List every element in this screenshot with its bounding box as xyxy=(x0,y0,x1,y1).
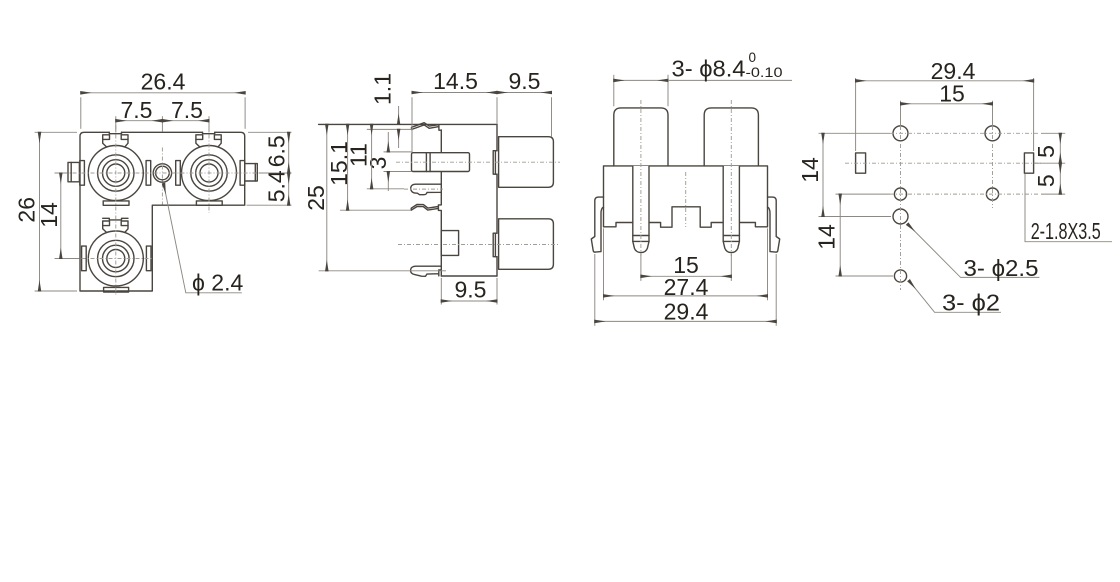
label 3-phi2 xyxy=(909,281,1001,316)
jack J2 right tab xyxy=(240,161,245,186)
svg-text:2-1.8X3.5: 2-1.8X3.5 xyxy=(1031,218,1101,244)
centerline lug 1 xyxy=(404,188,443,190)
jack J3 ring 3 xyxy=(103,245,130,272)
svg-text:7.5: 7.5 xyxy=(121,97,153,123)
spring tab 2 xyxy=(411,204,438,210)
label phi 2.4 leader xyxy=(164,184,244,296)
dimension 26 xyxy=(14,132,77,291)
dimension 14 upper xyxy=(797,133,891,216)
body outline (L-shape) xyxy=(80,132,245,291)
jack J3 right tab xyxy=(146,246,151,271)
jack J1 center hole xyxy=(107,164,125,182)
label 2-1.8X3.5 xyxy=(1025,174,1112,244)
svg-text:15.1: 15.1 xyxy=(326,141,352,186)
slot right 1.8x3.5 xyxy=(1024,153,1033,173)
centerline vertical small hole xyxy=(161,148,163,205)
svg-text:14.5: 14.5 xyxy=(433,68,478,94)
body top edge with extension line xyxy=(319,123,497,125)
jack J2 outer ring xyxy=(182,146,237,201)
svg-text:26.4: 26.4 xyxy=(141,69,186,95)
svg-text:9.5: 9.5 xyxy=(509,68,541,94)
dimension 15.1 xyxy=(326,124,411,210)
body right edge segments xyxy=(496,124,498,276)
body left edge with notch at spring tab xyxy=(438,130,441,276)
mounting ear left xyxy=(591,197,603,252)
svg-text:5: 5 xyxy=(1033,145,1059,158)
dimension 27.4 xyxy=(604,228,768,300)
svg-text:3- ϕ2: 3- ϕ2 xyxy=(942,290,1000,316)
svg-text:1.1: 1.1 xyxy=(370,73,396,105)
dimension 5.4 xyxy=(247,170,292,205)
svg-text:0: 0 xyxy=(749,50,757,65)
jack J1 left tab xyxy=(80,161,85,186)
centerline right column xyxy=(992,126,994,208)
right protruding lug xyxy=(245,164,258,181)
jack J2 bottom tab xyxy=(196,201,222,205)
svg-text:9.5: 9.5 xyxy=(455,277,487,303)
label 3-phi2.5 xyxy=(908,224,1040,281)
clip top barrel xyxy=(493,151,497,175)
terminal pin rectangle (3mm) xyxy=(412,153,470,172)
body outline with stepped bottom xyxy=(604,166,768,227)
centerline horizontal jack bottom xyxy=(55,258,153,260)
RCA barrel left (rear) xyxy=(614,108,668,166)
center small hole outer xyxy=(153,164,171,182)
jack J1 ring 3 xyxy=(103,160,130,187)
dimension 14.5 xyxy=(412,68,497,152)
dimension 5 lower xyxy=(1033,163,1065,194)
svg-text:5: 5 xyxy=(1033,174,1059,187)
dimension 6.5 xyxy=(248,132,292,173)
hole top-left phi2.5 xyxy=(893,126,908,141)
RCA barrel right (rear) xyxy=(704,108,758,166)
jack J1 right tab xyxy=(146,161,151,186)
svg-text:-0.10: -0.10 xyxy=(746,65,783,80)
dimension 15 (pins) xyxy=(641,252,731,281)
jack J3 center hole xyxy=(107,250,125,268)
square notch on left edge xyxy=(441,231,458,256)
centerline slot row xyxy=(845,162,1043,164)
dimension 5 upper xyxy=(1033,133,1065,163)
jack J1 outer ring xyxy=(88,146,143,201)
svg-text:25: 25 xyxy=(303,185,329,211)
jack J3 outer ring xyxy=(88,231,143,286)
dimension 11 xyxy=(346,124,404,188)
center small hole inner xyxy=(156,166,170,180)
hole bottom phi2 xyxy=(894,270,906,282)
RCA barrel top xyxy=(499,137,554,188)
hole third phi2.5 xyxy=(893,209,908,224)
jack J3 ring 2 xyxy=(98,240,134,276)
svg-text:3- ϕ8.4: 3- ϕ8.4 xyxy=(672,56,746,82)
dimension 3-phi8.4 xyxy=(614,50,792,106)
spring tab top (1.1 thickness) xyxy=(412,123,442,131)
solder lug 1 xyxy=(411,184,442,195)
dimension 29.4 xyxy=(856,58,1034,151)
svg-text:14: 14 xyxy=(797,157,823,183)
jack J3 castle xyxy=(103,218,128,232)
dimension 15 xyxy=(901,81,993,126)
centerline left barrel/pin xyxy=(640,100,642,256)
mounting ear right xyxy=(768,197,780,252)
jack J2 left tab xyxy=(176,161,181,186)
svg-text:5.4: 5.4 xyxy=(263,170,289,202)
svg-text:14: 14 xyxy=(814,224,840,250)
dimension 29.4 xyxy=(595,254,776,326)
svg-text:7.5: 7.5 xyxy=(171,97,203,123)
dimension 3 xyxy=(365,132,412,191)
jack J3 left tab xyxy=(82,246,87,271)
hole mid-right phi2 xyxy=(986,188,998,200)
dimension 7.5 7.5 xyxy=(116,97,209,132)
centerline mid hole row xyxy=(890,193,1040,195)
body bottom edge xyxy=(441,275,497,277)
jack J2 castle ears xyxy=(196,135,221,147)
svg-text:6.5: 6.5 xyxy=(263,135,289,167)
top edge keyway notch right jack xyxy=(203,132,215,133)
svg-text:15: 15 xyxy=(939,81,965,107)
jack J1 ring 2 xyxy=(98,155,134,191)
svg-text:29.4: 29.4 xyxy=(664,299,709,325)
clip bottom barrel xyxy=(493,233,497,257)
centerline vertical left jacks xyxy=(115,126,117,297)
hole mid-left phi2 xyxy=(894,188,906,200)
dimension 26.4 xyxy=(81,69,245,129)
centerline left column xyxy=(900,126,902,290)
dimension 1.1 xyxy=(367,73,412,148)
slot left 1.8x3.5 xyxy=(856,153,866,173)
jack J3 bottom tab xyxy=(104,287,129,292)
center pin left xyxy=(633,166,649,253)
jack J1 bottom tab xyxy=(103,201,129,205)
center pin right xyxy=(723,166,739,253)
dimension 9.5 bottom xyxy=(441,277,497,305)
jack J2 ring 2 xyxy=(191,155,227,191)
top edge keyway notch left jack xyxy=(109,132,121,133)
dimension 14 lower xyxy=(814,194,894,276)
centerline top barrel xyxy=(396,161,560,163)
svg-text:ϕ 2.4: ϕ 2.4 xyxy=(192,269,243,295)
dimension 9.5 top xyxy=(497,68,552,137)
centerline vertical right jack xyxy=(208,126,210,214)
jack J2 ring 3 xyxy=(196,160,223,187)
jack J2 center hole xyxy=(200,164,218,182)
jack J1 castle ears xyxy=(103,135,128,147)
solder lug 2 xyxy=(411,266,442,276)
centerline top hole row xyxy=(890,132,1040,134)
centerline middle xyxy=(685,172,687,227)
svg-text:14: 14 xyxy=(36,202,62,228)
RCA barrel bottom xyxy=(499,219,554,269)
svg-text:3- ϕ2.5: 3- ϕ2.5 xyxy=(964,255,1039,281)
dimension 25 xyxy=(303,124,446,270)
centerline bottom barrel xyxy=(398,244,560,246)
left protruding lug xyxy=(68,162,79,181)
dimension 14 xyxy=(36,173,79,259)
svg-text:27.4: 27.4 xyxy=(664,274,709,300)
hole top-right phi2.5 xyxy=(985,126,1000,141)
centerline right barrel/pin xyxy=(730,100,732,256)
centerline horizontal jacks top row xyxy=(55,172,291,174)
